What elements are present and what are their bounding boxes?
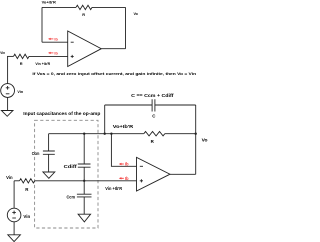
capacitor Ccm (left, - input to ground) [32,134,55,172]
wire top rail (inverting) [49,133,144,135]
svg-text:If Vos = 0, and zero input off: If Vos = 0, and zero input offset curren… [32,71,196,76]
capacitor C (feedback) [152,99,156,118]
wire down to source V1 [7,56,9,83]
svg-text:Vin +Ib'R: Vin +Ib'R [35,61,50,66]
wire R3 to output node [165,133,196,135]
junction Cdiff bottom [83,180,85,182]
svg-text:C: C [152,114,156,119]
wire output [170,173,196,175]
svg-text:R: R [20,61,23,66]
voltage source V1 [1,84,24,98]
wire right vertical to output [125,7,127,48]
svg-text:Vo: Vo [202,137,208,142]
wire output right vertical [195,105,197,174]
wire top feedback left segment [42,6,76,8]
current label Ib (into + input) [119,176,129,181]
wire R2 to + input [29,55,68,57]
op-amp U1 [68,31,102,67]
wire top feedback right segment [92,6,126,8]
resistor R4 (source) [20,179,35,192]
svg-text:Vin: Vin [0,50,5,55]
resistor R3 (feedback) [144,132,165,145]
svg-text:R: R [151,139,155,144]
ground (V2) [8,235,21,242]
svg-text:Vin +Ib'R: Vin +Ib'R [105,186,123,191]
svg-text:C == Ccm + Cdiff: C == Ccm + Cdiff [131,93,174,98]
op-amp U2 [137,157,171,191]
ground (Ccm bottom) [78,214,91,222]
svg-text:Cdiff: Cdiff [64,164,78,169]
ground (Ccm left) [43,172,55,178]
svg-text:R: R [25,187,29,192]
svg-text:Vin: Vin [17,89,23,94]
junction Cdiff top [83,133,85,135]
svg-text:Input capacitances of the op-a: Input capacitances of the op-amp [23,111,100,116]
resistor R2 (source) [14,54,30,66]
dashed box around input capacitances [35,120,98,228]
capacitor Ccm (bottom, + input to ground) [67,181,92,214]
svg-text:Ccm: Ccm [32,151,40,156]
svg-text:Vin: Vin [6,175,13,180]
svg-text:R: R [82,12,85,17]
wire C-loop left vertical [104,105,106,134]
svg-text:Vo+Ib'R: Vo+Ib'R [42,0,56,5]
current label Ib (into - input) [119,162,129,167]
current label Ib (into - input) [48,38,58,42]
svg-text:Vo+Ib'R: Vo+Ib'R [113,124,134,129]
junction output node [195,133,197,135]
wire output [101,48,125,50]
junction minus branch on rail [110,133,112,135]
wire inverting branch [111,134,136,167]
wire down to source V2 [13,181,15,208]
svg-text:Ib: Ib [125,162,129,167]
current label Ib (into + input) [48,52,58,56]
svg-text:Ccm: Ccm [67,194,75,199]
svg-text:Ib: Ib [54,52,58,56]
wire Vin to R2 [7,55,13,57]
wire V1 to ground [7,97,9,110]
svg-text:Ib: Ib [54,38,58,42]
junction C-loop on rail [104,133,106,135]
voltage source V2 [7,208,30,222]
svg-text:Vin: Vin [23,214,30,219]
resistor R1 (feedback) [76,5,92,17]
wire left vertical from feedback to inverting input [41,7,43,42]
wire R4 to + input [35,180,137,182]
svg-text:Vo: Vo [134,11,139,16]
ground (V1) [1,111,13,117]
svg-text:Ib: Ib [125,176,129,181]
wire inverting input [42,41,68,43]
wire C-loop right [155,104,196,106]
wire V2 to ground [13,222,15,235]
wire C-loop left [105,104,152,106]
capacitor Cdiff [64,134,91,181]
wire Vin to R4 [14,180,19,182]
